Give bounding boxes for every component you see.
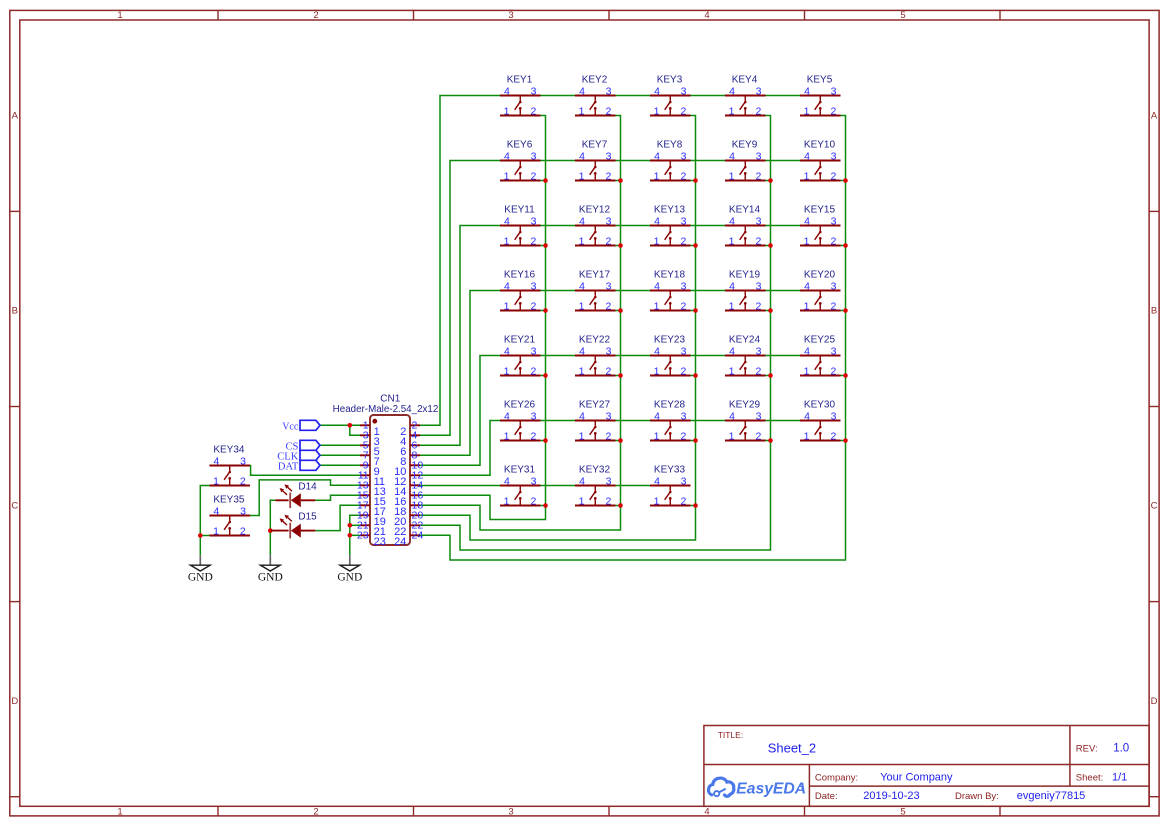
key switch KEY25 [800, 334, 841, 377]
svg-text:5: 5 [900, 10, 905, 21]
ground GND2 [258, 555, 283, 583]
svg-text:EasyEDA: EasyEDA [736, 781, 806, 798]
svg-text:KEY8: KEY8 [657, 139, 683, 150]
svg-text:Your Company: Your Company [880, 771, 953, 783]
svg-text:KEY22: KEY22 [579, 334, 611, 345]
key switch KEY2 [575, 74, 616, 117]
svg-text:C: C [11, 501, 18, 512]
svg-text:KEY7: KEY7 [582, 139, 608, 150]
svg-text:A: A [12, 111, 19, 122]
junction GND2/D15 [268, 528, 273, 533]
key switch KEY28 [650, 399, 691, 442]
svg-text:KEY12: KEY12 [579, 204, 611, 215]
key switch KEY11 [500, 204, 541, 247]
svg-text:2: 2 [313, 10, 318, 21]
key switch KEY20 [800, 269, 841, 312]
svg-text:KEY16: KEY16 [504, 269, 536, 280]
svg-text:Date:: Date: [815, 791, 838, 802]
svg-text:KEY30: KEY30 [804, 399, 836, 410]
svg-text:4: 4 [704, 10, 709, 21]
wire row 7 net (CN1 pin 14) [420, 485, 500, 487]
key switch KEY16 [500, 269, 541, 312]
key switch KEY1 [500, 74, 541, 117]
key switch KEY9 [725, 139, 766, 182]
key switch KEY10 [800, 139, 841, 182]
key switch KEY3 [650, 74, 691, 117]
wire row 2 net (CN1 pin 4) [420, 161, 500, 436]
key switch KEY29 [725, 399, 766, 442]
ground GND3 [337, 555, 362, 583]
key switch KEY6 [500, 139, 541, 182]
wire D14 cathode to GND2 [270, 500, 275, 555]
svg-text:GND: GND [188, 571, 213, 583]
net flag CLK [277, 450, 320, 462]
svg-text:KEY3: KEY3 [657, 74, 683, 85]
svg-text:Sheet:: Sheet: [1076, 772, 1103, 783]
svg-text:Sheet_2: Sheet_2 [768, 741, 816, 756]
EasyEDA logo [709, 778, 807, 797]
net flag Vcc [282, 420, 320, 432]
svg-text:D: D [1151, 696, 1158, 707]
junction CN1 pin 21 [348, 523, 353, 528]
junction dots column 2 [618, 178, 623, 183]
svg-text:23: 23 [374, 536, 386, 548]
wire column 2 net (CN1 pin 18) [420, 116, 621, 531]
LED D15 [271, 512, 317, 539]
wire row 1 net (CN1 pin 2) [420, 96, 500, 426]
key switch KEY8 [650, 139, 691, 182]
svg-text:B: B [12, 306, 18, 317]
svg-text:KEY5: KEY5 [807, 74, 833, 85]
svg-text:5: 5 [900, 807, 905, 818]
wire row 6 net (CN1 pin 12) [420, 421, 500, 476]
svg-text:KEY20: KEY20 [804, 269, 836, 280]
key switch KEY32 [575, 464, 616, 507]
key switch KEY21 [500, 334, 541, 377]
CN1 pin stubs [360, 425, 420, 535]
connector CN1 body [370, 415, 410, 545]
svg-text:KEY21: KEY21 [504, 334, 536, 345]
junction dots column 3 [693, 178, 698, 183]
key switch KEY27 [575, 399, 616, 442]
svg-text:KEY1: KEY1 [507, 74, 533, 85]
svg-text:Drawn By:: Drawn By: [955, 791, 999, 802]
key switch KEY33 [650, 464, 691, 507]
CN1 outer pin numbers [357, 420, 423, 542]
svg-text:KEY34: KEY34 [213, 444, 245, 455]
junction dots column 5 [843, 178, 848, 183]
wire D14 to CN1 pin 15 [315, 495, 360, 500]
key switch KEY22 [575, 334, 616, 377]
svg-text:KEY25: KEY25 [804, 334, 836, 345]
svg-text:3: 3 [508, 807, 513, 818]
svg-text:KEY35: KEY35 [213, 494, 245, 505]
svg-text:KEY9: KEY9 [732, 139, 758, 150]
svg-text:DAT: DAT [278, 461, 299, 472]
svg-text:Header-Male-2.54_2x12: Header-Male-2.54_2x12 [333, 404, 439, 415]
svg-text:KEY27: KEY27 [579, 399, 611, 410]
svg-text:23: 23 [357, 530, 369, 542]
svg-text:GND: GND [337, 571, 362, 583]
svg-text:KEY10: KEY10 [804, 139, 836, 150]
svg-text:KEY2: KEY2 [582, 74, 608, 85]
svg-text:KEY11: KEY11 [504, 204, 535, 215]
junction CN1 pin 23 [348, 533, 353, 538]
svg-text:3: 3 [508, 10, 513, 21]
svg-text:KEY4: KEY4 [732, 74, 758, 85]
key switch KEY30 [800, 399, 841, 442]
key switch KEY26 [500, 399, 541, 442]
ground GND1 [188, 555, 213, 583]
svg-text:1: 1 [117, 10, 122, 21]
LED D14 [275, 481, 317, 508]
key switch KEY34 [209, 444, 250, 487]
CN1 inner pin numbers [374, 426, 407, 548]
svg-text:KEY31: KEY31 [504, 464, 536, 475]
wire row 3 net (CN1 pin 6) [420, 226, 500, 446]
svg-text:24: 24 [394, 536, 406, 548]
svg-text:evgeniy77815: evgeniy77815 [1017, 790, 1086, 802]
wire column 4 net (CN1 pin 22) [420, 116, 771, 551]
key switch KEY19 [725, 269, 766, 312]
junction dots column 1 [543, 178, 548, 183]
key switch KEY35 [209, 494, 250, 537]
wire KEY35 to CN1 pin 13 [250, 480, 360, 516]
wire Vcc net (CN1 pins 1,3) [320, 424, 360, 426]
svg-text:D15: D15 [298, 512, 317, 523]
svg-text:KEY17: KEY17 [579, 269, 611, 280]
wire GND3 net (CN1 pins 19,21,23) [350, 515, 360, 555]
svg-text:KEY26: KEY26 [504, 399, 536, 410]
svg-text:1: 1 [117, 807, 122, 818]
wire DAT net (CN1 pin 9) [320, 464, 360, 466]
junction dots column 4 [768, 178, 773, 183]
wire CS net (CN1 pin 5) [320, 444, 360, 446]
svg-text:KEY28: KEY28 [654, 399, 686, 410]
wire column 3 net (CN1 pin 20) [420, 116, 696, 541]
wire GND1 net (KEY34/KEY35 grounds) [200, 486, 209, 556]
svg-text:Company:: Company: [815, 772, 858, 783]
wire D15 to CN1 pin 17 [315, 505, 360, 530]
svg-text:D14: D14 [298, 481, 317, 492]
key switch KEY14 [725, 204, 766, 247]
key switch KEY5 [800, 74, 841, 117]
svg-text:KEY32: KEY32 [579, 464, 611, 475]
junction Vcc [348, 423, 353, 428]
key switch KEY4 [725, 74, 766, 117]
wire column 1 net (CN1 pin 16) [420, 116, 546, 520]
svg-text:KEY15: KEY15 [804, 204, 836, 215]
title block grid [704, 726, 1149, 807]
svg-text:KEY33: KEY33 [654, 464, 686, 475]
svg-text:B: B [1151, 306, 1157, 317]
svg-text:KEY23: KEY23 [654, 334, 686, 345]
svg-text:TITLE:: TITLE: [718, 730, 744, 740]
svg-text:Vcc: Vcc [282, 421, 299, 432]
svg-text:4: 4 [704, 807, 709, 818]
svg-text:GND: GND [258, 571, 283, 583]
key switch KEY17 [575, 269, 616, 312]
net flag CS [285, 440, 320, 452]
svg-text:C: C [1151, 501, 1158, 512]
svg-text:A: A [1151, 111, 1158, 122]
key switch KEY24 [725, 334, 766, 377]
svg-text:2: 2 [313, 807, 318, 818]
svg-text:KEY14: KEY14 [729, 204, 761, 215]
svg-text:2019-10-23: 2019-10-23 [863, 790, 919, 802]
key switch KEY13 [650, 204, 691, 247]
svg-text:D: D [11, 696, 18, 707]
svg-text:1/1: 1/1 [1112, 771, 1127, 783]
svg-text:KEY19: KEY19 [729, 269, 761, 280]
key switch KEY18 [650, 269, 691, 312]
svg-text:KEY6: KEY6 [507, 139, 533, 150]
svg-text:KEY13: KEY13 [654, 204, 686, 215]
CN1 pin 1 marker [372, 419, 377, 424]
wire row 5 net (CN1 pin 10) [420, 356, 500, 466]
svg-text:KEY18: KEY18 [654, 269, 686, 280]
svg-text:KEY29: KEY29 [729, 399, 761, 410]
key switch KEY12 [575, 204, 616, 247]
svg-text:24: 24 [412, 530, 424, 542]
key switch KEY7 [575, 139, 616, 182]
wire KEY34 to CN1 pin 11 [250, 466, 360, 476]
junction GND1/KEY35 [198, 533, 203, 538]
net flag DAT [278, 460, 320, 472]
svg-text:1.0: 1.0 [1113, 743, 1129, 755]
wire row 4 net (CN1 pin 8) [420, 291, 500, 456]
svg-text:REV:: REV: [1076, 744, 1098, 755]
key switch KEY31 [500, 464, 541, 507]
wire CLK net (CN1 pin 7) [320, 454, 360, 456]
svg-text:KEY24: KEY24 [729, 334, 761, 345]
key switch KEY23 [650, 334, 691, 377]
wire column 5 net (CN1 pin 24) [420, 116, 846, 561]
key switch KEY15 [800, 204, 841, 247]
